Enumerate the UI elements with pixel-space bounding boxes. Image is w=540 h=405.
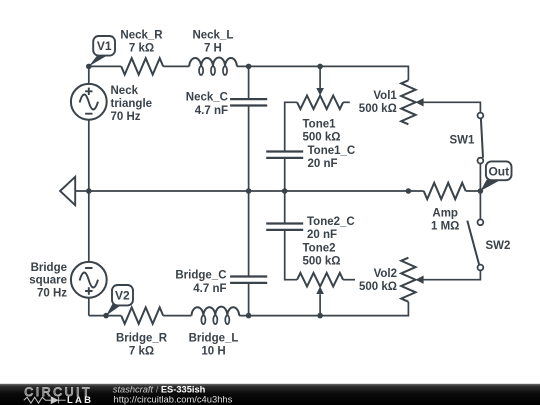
wire Tone1 left lead and Tone1_C column [285, 102, 297, 191]
flag V1 [93, 36, 115, 56]
flag pointer V1 [89, 55, 107, 66]
svg-text:Vol1500 kΩ: Vol1500 kΩ [359, 90, 398, 115]
resistor Bridge_R [121, 307, 163, 323]
svg-text:SW1: SW1 [450, 134, 476, 146]
inductor Neck_L [189, 57, 237, 66]
svg-text:Tone1500 kΩ: Tone1500 kΩ [303, 118, 341, 143]
junction dot bottom V2 node [103, 313, 109, 319]
wire Bridge_C column [248, 191, 250, 316]
svg-text:Tone2500 kΩ: Tone2500 kΩ [303, 242, 341, 267]
source V1 circle [71, 84, 107, 120]
wire Tone2_C column and Tone2 left lead [285, 191, 297, 280]
footer bar [0, 384, 540, 405]
svg-text:Vol2500 kΩ: Vol2500 kΩ [359, 268, 397, 293]
svg-text:Tone1_C20 nF: Tone1_C20 nF [308, 145, 356, 170]
junction dot top V1 node [86, 64, 92, 70]
wiper arrow Vol2 [415, 276, 423, 284]
junction dot bottom Bridge_C [246, 313, 252, 319]
wire SW2 to Vol2 wiper [423, 270, 481, 279]
wiper arrow Tone2 [316, 287, 324, 295]
capacitor Tone2_C [266, 224, 303, 230]
svg-text:Bridge_R7 kΩ: Bridge_R7 kΩ [116, 333, 168, 358]
wire bottom bus from V2 node to Vol2 [89, 302, 409, 316]
flag Out [486, 161, 512, 180]
svg-text:Necktriangle70 Hz: Necktriangle70 Hz [111, 85, 153, 123]
svg-text:V2: V2 [115, 289, 130, 303]
resistor Amp [424, 183, 466, 199]
wiper arrow Tone1 [316, 88, 324, 96]
svg-text:Tone2_C20 nF: Tone2_C20 nF [307, 216, 355, 241]
svg-text:Out: Out [488, 164, 509, 178]
svg-text:V1: V1 [97, 39, 112, 53]
capacitor Neck_C [230, 99, 267, 105]
wire Out node to SW2 [479, 191, 481, 219]
flag pointer V2 [106, 304, 120, 316]
potentiometer Vol1 [401, 80, 415, 124]
svg-text:SW2: SW2 [486, 240, 511, 252]
source V2 circle [71, 262, 107, 298]
svg-text:Bridge_L10 H: Bridge_L10 H [189, 333, 239, 358]
wire Tone2 wiper rise [319, 294, 321, 315]
junction dot bottom Tone2 wiper [317, 313, 323, 319]
junction dot top Neck_C [246, 64, 252, 70]
svg-text:Bridgesquare70 Hz: Bridgesquare70 Hz [29, 262, 67, 300]
wire mid bus [75, 190, 480, 192]
resistor Neck_R [121, 58, 163, 74]
flag pointer Out [480, 180, 500, 191]
svg-text:Neck_R7 kΩ: Neck_R7 kΩ [120, 30, 163, 55]
capacitor Tone1_C [266, 152, 303, 158]
inductor Bridge_L [192, 307, 240, 316]
junction dot mid Tone caps [282, 188, 288, 194]
footer logo resistor-diode glyph [24, 397, 51, 403]
wire top bus from V1 node to Vol1 corner [89, 66, 409, 80]
junction dot mid Neck_C [246, 188, 252, 194]
wiper arrow Vol1 [415, 98, 423, 106]
svg-text:Neck_L7 H: Neck_L7 H [192, 30, 233, 55]
svg-text:http://circuitlab.com/c4u3hhs: http://circuitlab.com/c4u3hhs [114, 394, 233, 405]
svg-text:Neck_C4.7 nF: Neck_C4.7 nF [186, 91, 228, 117]
potentiometer Vol2 [401, 258, 415, 302]
wire Tone1 wiper drop [319, 66, 321, 88]
wire SW1 to Out node [479, 164, 481, 192]
wire left column V1-V2 through mid bus [88, 66, 90, 315]
wire Neck_C column [248, 66, 250, 191]
potentiometer Tone2 [297, 273, 343, 287]
junction dot mid V column [86, 188, 92, 194]
switch SW2 [478, 219, 484, 225]
junction dot top Tone1 wiper [317, 64, 323, 70]
switch SW1 [478, 113, 484, 119]
input flag triangle [60, 177, 75, 205]
flag V2 [112, 285, 133, 305]
svg-text:LAB: LAB [67, 395, 93, 405]
svg-text:Bridge_C4.7 nF: Bridge_C4.7 nF [175, 269, 226, 295]
junction dot mid Vol column [406, 188, 412, 194]
capacitor Bridge_C [230, 277, 267, 283]
junction dot Out node [478, 188, 484, 194]
wire Vol1 wiper to SW1 [423, 102, 481, 112]
svg-text:Amp1 MΩ: Amp1 MΩ [431, 208, 459, 233]
potentiometer Tone1 [297, 96, 343, 110]
